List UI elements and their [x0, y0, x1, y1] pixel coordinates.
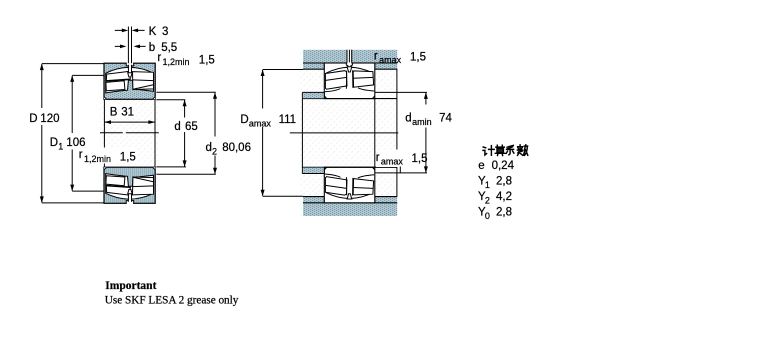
svg-text:K: K — [149, 26, 157, 38]
svg-text:Use SKF LESA 2 grease only: Use SKF LESA 2 grease only — [105, 295, 239, 307]
dimension D amax 111 — [263, 70, 303, 197]
svg-text:1,2min: 1,2min — [163, 57, 190, 67]
dimension D1 106 — [72, 75, 104, 191]
cage diagonal left — [106, 80, 131, 82]
svg-text:65: 65 — [185, 121, 198, 133]
svg-text:b: b — [149, 42, 155, 54]
housing bottom band — [303, 203, 397, 216]
svg-text:4,2: 4,2 — [496, 191, 512, 203]
lubrication hole stack lines above — [128, 27, 131, 64]
svg-text:120: 120 — [40, 113, 59, 125]
lubrication groove notch — [127, 62, 134, 66]
heading 计算系数 (drawn glyphs) — [483, 145, 528, 156]
svg-text:2: 2 — [485, 196, 490, 206]
svg-text:1: 1 — [58, 142, 63, 152]
svg-text:5,5: 5,5 — [161, 42, 177, 54]
bore corner chamfers — [104, 96, 107, 99]
right roller divider — [353, 76, 373, 79]
shaft shoulder bottom — [303, 168, 324, 173]
center cage / guide ring — [346, 70, 353, 89]
svg-text:r: r — [157, 52, 161, 64]
shaft shoulder top — [303, 93, 324, 98]
svg-text:B: B — [110, 106, 118, 118]
svg-text:2,8: 2,8 — [496, 207, 512, 219]
inner ring top boundary — [325, 88, 374, 92]
svg-text:80,06: 80,06 — [222, 142, 251, 154]
bore side lines between ring halves — [104, 99, 155, 167]
svg-text:d: d — [206, 142, 212, 154]
cage diagonal right — [133, 85, 153, 90]
svg-text:31: 31 — [121, 106, 134, 118]
svg-text:0,24: 0,24 — [492, 160, 515, 172]
dimension d 65 — [156, 100, 186, 167]
svg-text:amax: amax — [381, 157, 404, 167]
housing shoulders bottom — [303, 197, 324, 203]
housing shoulders top — [303, 63, 324, 69]
svg-text:D: D — [29, 113, 37, 125]
svg-text:amax: amax — [379, 55, 402, 65]
hatch background left figure — [100, 63, 159, 204]
dimension D 120 — [42, 64, 104, 203]
svg-text:1,5: 1,5 — [199, 55, 215, 67]
svg-text:D: D — [240, 114, 248, 126]
outer+inner ring blue section — [104, 63, 155, 99]
glyph suan — [495, 145, 505, 155]
svg-text:d: d — [405, 112, 411, 124]
dimension K 3 — [115, 29, 145, 31]
svg-text:amin: amin — [412, 117, 432, 127]
middle bearing top half — [324, 63, 375, 99]
svg-text:1,5: 1,5 — [410, 52, 426, 64]
svg-text:r: r — [376, 152, 380, 164]
svg-text:0: 0 — [485, 211, 490, 221]
svg-text:D: D — [50, 137, 58, 149]
middle bearing bottom half (mirror) — [324, 167, 375, 203]
center line left figure — [100, 132, 159, 134]
right roller divider — [133, 79, 154, 82]
lubrication hole through housing — [347, 50, 351, 65]
shaft outline — [302, 99, 397, 168]
housing top band — [303, 50, 397, 63]
lubrication hole — [129, 64, 131, 73]
label r 1,2min 1,5 (middle) — [101, 148, 138, 164]
center line middle figure — [290, 132, 399, 134]
raceway + rollers white region — [106, 67, 154, 93]
bearing left: top ring half — [104, 62, 155, 99]
bearing left: bottom ring half (mirror) — [104, 167, 155, 204]
svg-text:d: d — [174, 121, 180, 133]
dimension d amin 74 — [375, 92, 427, 172]
svg-text:1,5: 1,5 — [120, 151, 136, 163]
funnel — [347, 67, 352, 72]
svg-text:1,2min: 1,2min — [84, 154, 111, 164]
svg-text:1: 1 — [485, 180, 490, 190]
hatch background middle figure — [300, 50, 398, 217]
bore corner chamfers — [324, 96, 375, 99]
left roller — [325, 71, 347, 90]
dimension B 31 — [104, 121, 155, 123]
svg-text:2: 2 — [212, 146, 217, 156]
dimension b 5,5 — [115, 45, 146, 47]
svg-text:2,8: 2,8 — [496, 176, 512, 188]
outer raceway arc — [326, 67, 373, 73]
svg-text:106: 106 — [66, 137, 85, 149]
glyph shu — [517, 145, 527, 156]
glyph ji — [483, 146, 494, 156]
left upper roller outline — [106, 71, 130, 80]
left roller divider — [326, 77, 347, 80]
right roller outline — [133, 72, 154, 90]
svg-text:r: r — [79, 149, 83, 161]
glyph xi — [506, 145, 514, 155]
dimension d2 80,06 — [156, 92, 215, 174]
label r amax 1,5 (bottom) — [376, 150, 400, 168]
svg-text:3: 3 — [162, 26, 168, 38]
left lower roller outline — [106, 81, 125, 91]
svg-text:74: 74 — [439, 112, 452, 124]
svg-text:r: r — [374, 50, 378, 62]
svg-text:amax: amax — [249, 118, 272, 128]
svg-text:e: e — [478, 160, 484, 172]
svg-text:1,5: 1,5 — [412, 153, 428, 165]
svg-text:111: 111 — [279, 114, 296, 126]
right roller — [353, 71, 373, 87]
funnel below hole — [128, 73, 133, 77]
svg-text:Important: Important — [105, 280, 156, 292]
